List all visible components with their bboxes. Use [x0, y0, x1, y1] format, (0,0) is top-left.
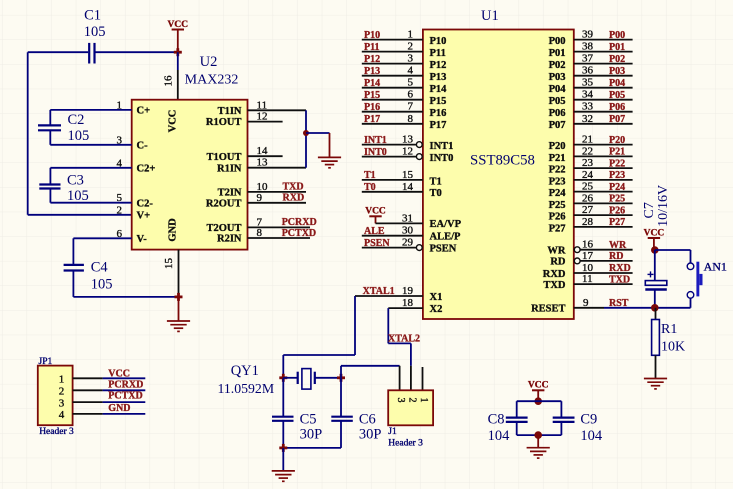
svg-text:U1: U1: [481, 8, 499, 24]
svg-text:15: 15: [163, 258, 175, 270]
ground: [527, 435, 550, 458]
svg-text:7: 7: [408, 101, 414, 113]
svg-text:P23: P23: [549, 176, 566, 187]
wire: [50, 109, 131, 111]
U2 pin 1 C+: [117, 99, 151, 116]
svg-text:VCC: VCC: [528, 381, 549, 391]
wire: [96, 51, 178, 53]
svg-text:105: 105: [91, 276, 113, 292]
U2 pin 7 T2OUT: [206, 216, 262, 234]
svg-text:VCC: VCC: [644, 228, 665, 238]
U1 pin 5 P14: [362, 77, 447, 95]
svg-text:WR: WR: [547, 246, 566, 257]
label GND pin15: [168, 218, 179, 242]
svg-text:P04: P04: [609, 78, 625, 89]
svg-text:P16: P16: [364, 102, 380, 113]
svg-text:PCRXD: PCRXD: [108, 380, 143, 391]
junction: [279, 444, 287, 452]
svg-text:34: 34: [582, 89, 594, 101]
svg-text:3: 3: [408, 53, 414, 65]
svg-text:V+: V+: [137, 210, 151, 221]
svg-text:EA/VP: EA/VP: [430, 219, 462, 230]
svg-text:T2OUT: T2OUT: [206, 223, 241, 234]
svg-text:X1: X1: [430, 292, 443, 303]
svg-text:C9: C9: [580, 412, 597, 428]
svg-text:4: 4: [408, 65, 414, 77]
svg-text:31: 31: [402, 212, 413, 224]
label J1: [388, 427, 397, 437]
svg-text:P14: P14: [430, 84, 448, 95]
wire: [517, 400, 562, 402]
junction: [337, 374, 345, 382]
svg-text:P20: P20: [609, 135, 625, 146]
svg-text:11: 11: [582, 273, 593, 285]
U1 pin 29 PSEN: [362, 237, 457, 255]
svg-text:27: 27: [582, 204, 594, 216]
svg-text:QY1: QY1: [231, 363, 259, 379]
capacitor C4: [64, 238, 113, 297]
svg-text:P12: P12: [364, 54, 380, 65]
svg-text:P13: P13: [430, 72, 447, 83]
svg-text:XTAL1: XTAL1: [363, 286, 395, 297]
svg-text:P03: P03: [549, 72, 566, 83]
U2 pin 13 R1IN: [217, 157, 268, 175]
U1 pin 30 ALE/P: [362, 225, 461, 243]
U1 pin 26 P25: [549, 192, 633, 210]
wire: [306, 132, 330, 134]
svg-text:P17: P17: [430, 120, 447, 131]
U1 pin 14 T0: [362, 181, 442, 199]
svg-text:23: 23: [582, 157, 594, 169]
svg-text:TXD: TXD: [609, 274, 630, 285]
wire: [27, 52, 29, 215]
power VCC: [644, 228, 665, 250]
pin: [410, 366, 412, 391]
svg-text:P00: P00: [609, 30, 625, 41]
svg-text:P11: P11: [364, 42, 380, 53]
svg-text:WR: WR: [609, 240, 627, 251]
svg-text:AN1: AN1: [704, 259, 727, 273]
capacitor C8: [488, 401, 528, 444]
svg-text:1: 1: [418, 398, 429, 403]
svg-text:P07: P07: [609, 114, 625, 125]
svg-text:32: 32: [582, 113, 593, 125]
wire: [655, 249, 691, 251]
wire: [73, 237, 131, 239]
svg-text:30P: 30P: [300, 427, 323, 443]
svg-text:P15: P15: [364, 90, 380, 101]
svg-text:T1OUT: T1OUT: [206, 152, 241, 163]
U1 pin 9 RESET: [531, 297, 629, 315]
svg-text:13: 13: [402, 134, 414, 146]
wire: [50, 202, 131, 204]
U1 pin 32 P07: [549, 113, 633, 131]
svg-text:26: 26: [582, 192, 594, 204]
U1 pin 12 INT0: [362, 146, 454, 164]
svg-text:J1: J1: [388, 427, 397, 437]
U2 pin 10 T2IN: [218, 181, 268, 199]
svg-text:14: 14: [402, 181, 414, 193]
svg-text:P01: P01: [609, 42, 625, 53]
svg-text:C4: C4: [91, 260, 109, 276]
U1 pin 27 P26: [549, 204, 633, 222]
svg-text:30P: 30P: [359, 427, 382, 443]
svg-text:T2IN: T2IN: [218, 188, 242, 199]
svg-text:TXD: TXD: [283, 182, 304, 193]
svg-text:12: 12: [402, 146, 413, 158]
net TXD: [248, 182, 307, 193]
U2 pin 5 C2-: [117, 192, 154, 209]
ground: [318, 133, 341, 168]
label Header 3: [388, 438, 423, 448]
svg-text:GND: GND: [168, 218, 179, 242]
junction: [279, 374, 287, 382]
svg-text:8: 8: [408, 113, 414, 125]
svg-text:3: 3: [395, 398, 406, 403]
svg-text:RD: RD: [550, 257, 566, 268]
svg-text:C2+: C2+: [137, 163, 156, 174]
U1 pin 18 X2: [388, 297, 442, 315]
svg-text:24: 24: [582, 169, 594, 181]
label U1: [481, 8, 499, 24]
U2 pin 8 R2IN: [217, 227, 263, 245]
svg-text:10K: 10K: [661, 340, 685, 355]
svg-text:P00: P00: [549, 36, 566, 47]
svg-text:P21: P21: [549, 153, 566, 164]
svg-text:V-: V-: [137, 234, 148, 245]
U1 pin 35 P04: [549, 77, 633, 95]
label MAX232: [185, 73, 239, 88]
svg-text:RXD: RXD: [543, 269, 566, 280]
U1 pin 6 P15: [362, 89, 447, 107]
svg-text:P27: P27: [609, 217, 625, 228]
capacitor C3: [39, 168, 88, 204]
svg-text:MAX232: MAX232: [185, 73, 239, 88]
wire: [517, 434, 562, 436]
svg-text:INT0: INT0: [364, 147, 387, 158]
svg-text:VCC: VCC: [365, 207, 386, 217]
svg-text:R1: R1: [661, 322, 677, 337]
JP1 pin 4 GND: [59, 403, 146, 421]
svg-text:P17: P17: [364, 114, 380, 125]
svg-text:VCC: VCC: [168, 20, 189, 30]
button AN1: [687, 259, 727, 298]
svg-text:P20: P20: [549, 141, 566, 152]
U1 pin 3 P12: [362, 53, 447, 71]
svg-text:16: 16: [163, 75, 175, 87]
svg-text:C1: C1: [84, 8, 101, 24]
svg-text:RXD: RXD: [609, 263, 631, 274]
svg-text:P05: P05: [549, 96, 566, 107]
svg-text:105: 105: [68, 128, 90, 144]
svg-text:21: 21: [582, 134, 593, 146]
label JP1: [39, 357, 53, 367]
junction: [303, 130, 309, 136]
svg-text:104: 104: [488, 428, 511, 444]
svg-text:P05: P05: [609, 90, 625, 101]
svg-text:11.0592M: 11.0592M: [218, 381, 275, 396]
svg-text:INT0: INT0: [430, 153, 454, 164]
pin 15: [163, 250, 179, 297]
pin: [399, 366, 401, 391]
U1 pin 17 RD: [550, 250, 632, 268]
svg-text:10/16V: 10/16V: [656, 185, 671, 227]
capacitor C5: [272, 378, 322, 448]
wire: [50, 144, 131, 146]
svg-text:T0: T0: [430, 188, 442, 199]
capacitor C9: [553, 401, 603, 444]
label C7: [642, 202, 657, 218]
wire: [604, 307, 691, 309]
svg-text:2: 2: [406, 398, 417, 403]
U1 pin 1 P10: [362, 29, 447, 47]
svg-text:P06: P06: [609, 102, 625, 113]
U1 pin 34 P05: [549, 89, 633, 107]
power VCC: [365, 207, 386, 224]
label Header 3: [39, 427, 74, 437]
connector JP1: [38, 366, 73, 426]
U1 pin 38 P01: [549, 41, 633, 59]
svg-text:RESET: RESET: [531, 304, 565, 315]
U1 pin 33 P06: [549, 101, 633, 119]
svg-text:Header 3: Header 3: [39, 427, 74, 437]
U2 pin 11 T1IN: [218, 99, 268, 117]
wire: [410, 343, 412, 365]
svg-text:P24: P24: [609, 182, 625, 193]
JP1 pin 2 PCRXD: [59, 380, 146, 398]
U1 pin 24 P23: [549, 169, 633, 187]
net PCTXD: [248, 228, 317, 239]
wire: [341, 365, 400, 367]
svg-text:PSEN: PSEN: [364, 238, 390, 249]
junction: [175, 293, 183, 301]
U1 pin 23 P22: [549, 157, 633, 175]
svg-text:C8: C8: [488, 412, 505, 428]
svg-text:P07: P07: [549, 120, 566, 131]
svg-text:P10: P10: [364, 30, 380, 41]
svg-text:ALE: ALE: [364, 226, 385, 237]
svg-text:P02: P02: [549, 60, 566, 71]
svg-text:C2-: C2-: [137, 198, 154, 209]
U1 pin 36 P03: [549, 65, 633, 83]
svg-text:P25: P25: [549, 200, 566, 211]
J1 pin 1: [418, 398, 429, 403]
svg-text:105: 105: [84, 24, 106, 40]
svg-text:16: 16: [582, 239, 594, 251]
JP1 pin 3 PCTXD: [59, 390, 146, 409]
svg-text:9: 9: [583, 297, 589, 309]
capacitor C6: [331, 378, 381, 448]
svg-text:R2IN: R2IN: [217, 234, 242, 245]
U2 pin 2 V+: [117, 204, 151, 221]
svg-text:35: 35: [582, 77, 594, 89]
U1 pin 10 RXD: [543, 262, 633, 280]
ground: [167, 297, 190, 332]
svg-text:T1: T1: [430, 176, 442, 187]
wire: [387, 308, 389, 343]
JP1 pin 1 VCC: [59, 368, 146, 385]
ground: [644, 379, 667, 389]
label VCC pin16: [168, 110, 179, 133]
svg-text:P12: P12: [430, 60, 447, 71]
capacitor C1: [84, 8, 106, 64]
svg-text:PCRXD: PCRXD: [282, 217, 317, 228]
wire: [354, 296, 356, 355]
wire: [177, 52, 179, 70]
svg-text:P03: P03: [609, 66, 625, 77]
svg-text:P21: P21: [609, 147, 625, 158]
svg-text:105: 105: [67, 188, 89, 204]
svg-text:36: 36: [582, 65, 594, 77]
svg-text:P02: P02: [609, 54, 625, 65]
svg-text:P14: P14: [364, 78, 380, 89]
svg-text:PSEN: PSEN: [430, 243, 457, 254]
U1 pin 2 P11: [362, 41, 446, 59]
U1 pin 21 P20: [549, 134, 633, 152]
svg-text:2: 2: [117, 204, 123, 216]
svg-text:T1IN: T1IN: [218, 106, 242, 117]
capacitor C2: [38, 110, 89, 145]
label U2: [200, 54, 218, 70]
pin: [422, 367, 424, 390]
junction: [174, 48, 182, 56]
svg-text:C2: C2: [68, 112, 85, 128]
wire: [690, 250, 692, 263]
svg-text:U2: U2: [200, 54, 218, 70]
svg-text:C3: C3: [67, 173, 84, 189]
svg-text:C6: C6: [359, 412, 376, 428]
svg-text:P13: P13: [364, 66, 380, 77]
U1 pin 7 P16: [362, 101, 447, 119]
svg-text:2: 2: [408, 41, 414, 53]
wire: [283, 354, 355, 356]
svg-text:VCC: VCC: [168, 110, 179, 133]
svg-text:37: 37: [582, 53, 594, 65]
U1 pin 37 P02: [549, 53, 633, 71]
svg-text:RXD: RXD: [283, 193, 305, 204]
svg-text:P27: P27: [549, 223, 566, 234]
U1 pin 13 INT1: [362, 134, 454, 152]
svg-text:PCTXD: PCTXD: [282, 228, 316, 239]
power VCC: [168, 20, 189, 52]
pin wire: [248, 155, 283, 157]
svg-text:6: 6: [408, 89, 414, 101]
svg-text:XTAL2: XTAL2: [388, 333, 420, 344]
svg-text:T1: T1: [364, 170, 376, 181]
wire: [388, 342, 411, 344]
svg-text:15: 15: [402, 169, 414, 181]
U1 pin 39 P00: [549, 29, 633, 47]
svg-text:33: 33: [582, 101, 594, 113]
U2 pin 14 T1OUT: [206, 145, 268, 163]
svg-text:3: 3: [59, 397, 65, 409]
net XTAL2: [388, 333, 420, 344]
svg-text:P10: P10: [430, 36, 447, 47]
IC U2: [132, 100, 248, 250]
wire: [283, 447, 341, 449]
svg-text:P01: P01: [549, 48, 566, 59]
svg-text:30: 30: [402, 225, 414, 237]
U1 pin 8 P17: [362, 113, 447, 131]
connector J1: [388, 390, 433, 425]
junction: [651, 304, 659, 312]
net PCRXD: [248, 217, 317, 228]
svg-text:R1OUT: R1OUT: [206, 117, 242, 128]
svg-text:18: 18: [402, 297, 414, 309]
label 10/16V: [656, 185, 671, 227]
svg-text:39: 39: [582, 29, 594, 41]
J1 pin 3: [395, 398, 406, 403]
svg-text:P26: P26: [549, 212, 566, 223]
wire: [690, 298, 692, 308]
U1 pin 28 P27: [549, 216, 633, 234]
pin wire: [248, 121, 283, 123]
label SST89C58: [470, 153, 535, 169]
svg-text:5: 5: [408, 77, 414, 89]
junction: [651, 246, 659, 254]
ground: [272, 448, 295, 481]
pin wire: [248, 167, 307, 169]
svg-text:INT1: INT1: [430, 141, 454, 152]
U2 pin 12 R1OUT: [206, 111, 268, 129]
svg-text:X2: X2: [430, 304, 443, 315]
U1 pin 11 TXD: [543, 273, 632, 291]
label 11.0592M: [218, 381, 275, 396]
svg-text:R2OUT: R2OUT: [206, 198, 242, 209]
crystal QY1: [283, 369, 341, 390]
svg-text:1: 1: [408, 29, 414, 41]
svg-text:P24: P24: [549, 188, 567, 199]
junction: [534, 431, 542, 439]
U2 pin 3 C-: [117, 134, 149, 151]
svg-text:C-: C-: [137, 140, 149, 151]
svg-text:SST89C58: SST89C58: [470, 153, 535, 169]
svg-text:TXD: TXD: [543, 280, 566, 291]
U1 pin 15 T1: [362, 169, 442, 187]
U2 pin 4 C2+: [117, 157, 156, 174]
svg-text:RD: RD: [609, 251, 623, 262]
wire: [28, 51, 88, 53]
svg-text:P22: P22: [609, 158, 625, 169]
IC U1: [423, 30, 574, 320]
svg-text:GND: GND: [108, 403, 130, 414]
wire: [28, 214, 132, 216]
svg-text:P25: P25: [609, 194, 625, 205]
svg-text:2: 2: [59, 386, 65, 398]
svg-text:22: 22: [582, 145, 593, 157]
wire: [50, 167, 131, 169]
svg-text:C+: C+: [137, 106, 151, 117]
svg-text:C5: C5: [300, 412, 317, 428]
svg-text:VCC: VCC: [108, 368, 130, 379]
power VCC: [528, 381, 549, 402]
wire: [282, 355, 284, 378]
U1 pin 22 P21: [549, 145, 633, 163]
svg-text:17: 17: [582, 250, 594, 262]
resistor R1: [652, 308, 686, 379]
U1 pin 31 EA/VP: [376, 212, 462, 230]
svg-text:ALE/P: ALE/P: [430, 232, 462, 243]
svg-text:P06: P06: [549, 108, 566, 119]
svg-text:P11: P11: [430, 48, 446, 59]
svg-text:38: 38: [582, 41, 594, 53]
svg-text:28: 28: [582, 216, 594, 228]
U1 pin 4 P13: [362, 65, 447, 83]
svg-text:19: 19: [402, 285, 414, 297]
svg-text:P26: P26: [609, 205, 625, 216]
pin 16: [163, 70, 178, 100]
U1 pin 19 X1: [355, 285, 442, 303]
